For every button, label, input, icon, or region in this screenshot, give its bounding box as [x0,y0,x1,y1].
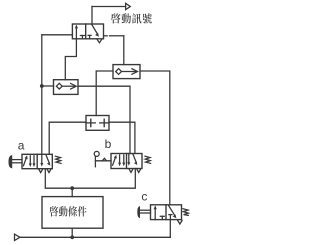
valve c plunger actuator disc [137,206,140,218]
valve V0 left-cell flow arrow (up) [75,26,77,39]
wire S1 output to valve b top port [78,86,130,153]
valve b exhaust V right [137,169,141,172]
valve a divider [36,154,38,168]
label start-signal text [111,13,120,23]
valve b right-cell diagonal arrow [133,154,136,162]
valve V0 left-cell blocked port T [81,36,83,39]
svg-text:a: a [18,139,25,153]
bottom rail source arrowhead [15,234,20,240]
limit valve b body [111,154,142,169]
valve c plunger stems [140,209,151,211]
start-condition box [42,197,103,229]
valve c right-cell diagonal arrow [168,205,175,216]
valve b left-cell diagonal arrow [113,157,116,165]
valve a return spring [55,156,61,163]
two-pressure AND valve body [86,116,109,131]
node junction dot rail/shuttle S1 [40,84,44,88]
wire left rail (valve a output riser) [41,35,43,155]
AND valve internal right seat [103,119,105,126]
wire AND right input from valve b [109,122,135,153]
valve c right-cell blocked port T [169,215,171,220]
valve a plunger stems [12,159,22,161]
valve c left-cell flow arrow (up) [154,207,156,220]
valve a exhaust V right [47,169,51,172]
valve b divider [126,154,128,169]
valve V0 right-cell blocked port T [89,35,91,38]
limit valve a body [22,154,52,168]
wire rail to S1 left port [42,85,54,87]
valve b roller lever circle [94,151,99,156]
bottom supply rail [20,236,170,238]
valve c left-cell blocked port T [161,216,163,219]
valve V0 divider [85,24,87,39]
valve b lever link to body [95,160,111,162]
valve V0 right-cell flow path (diagonal to exhaust) [92,25,98,35]
valve c divider [165,205,167,220]
wire V0 output port up to signal arrow [91,7,93,25]
shuttle valve S2 flow arrow [122,71,136,73]
shuttle valve S2 ball (diamond) [116,69,122,75]
valve V0 pilot line (dashed) to shuttle valve S2 [104,35,107,37]
AND valve internal left seat [90,119,92,126]
label start-condition text [50,206,59,216]
node junction dot bottom rail [70,235,74,239]
wire V0 left port to left rail [42,34,73,36]
svg-text:b: b [105,137,112,151]
valve b exhaust V left [129,169,133,172]
limit valve c body [151,205,182,220]
wire AND valve output riser to shuttle S2 left port [96,71,113,116]
valve b left-cell down arrow 2 [123,155,125,163]
start signal arrowhead [126,3,131,9]
shuttle valve S1 body [54,80,79,95]
valve a plunger actuator disc [8,155,12,168]
valve c exhaust vent V below body [178,220,182,224]
shuttle valve S2 body [113,65,140,79]
valve a left-cell down arrow 1 [29,156,31,164]
valve b roller lever stem [94,157,96,167]
valve c return spring [183,209,188,216]
wire valve a supply down to rail [45,169,135,189]
valve a left-cell down arrow 2 [33,156,35,164]
shuttle valve S1 ball (diamond) [56,83,62,89]
wire V0 bottom port down [65,39,76,80]
wire pilot line down to shuttle S2 top port [123,36,125,65]
wire S2 output to valve c top port [140,71,170,205]
wire stub rail to condition box top [71,188,73,196]
node junction dot rail/condition box [70,186,74,190]
svg-text:c: c [141,190,147,204]
valve a exhaust V left [39,169,43,172]
valve V0 (pilot-operated 3/2 start-signal valve) body [72,24,103,39]
valve a left-cell diagonal arrow [23,158,26,166]
shuttle valve S1 flow arrow [63,85,75,87]
valve b left-cell down arrow 1 [119,155,121,163]
valve a right-cell diagonal arrow [46,155,49,163]
valve b return spring [145,156,151,163]
valve b right-cell down arrow (from riser port) [128,154,130,163]
wire bottom rail up to valve c bottom port [169,220,171,238]
valve a right-cell down arrow (from rail port) [41,154,43,163]
wire stub condition box bottom to bottom rail [71,228,73,237]
valve b lever pivot mark [102,158,106,161]
wire AND left input from valve a [49,122,86,154]
valve V0 exhaust vent V below body [97,40,101,43]
start signal arrow line [92,6,126,8]
